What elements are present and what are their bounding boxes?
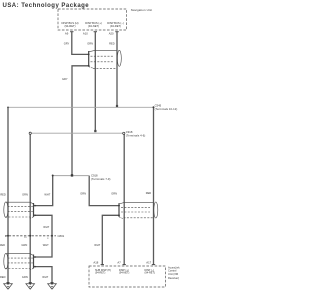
svg-text:RED: RED (0, 243, 5, 247)
node S2 top stub (34, 205, 36, 207)
wire branch right GRN (89, 176, 119, 206)
wire G545 left RED (7, 107, 9, 282)
node A20 terminal (116, 105, 118, 107)
node S3 top stub (34, 256, 36, 258)
svg-text:A9: A9 (65, 32, 69, 36)
svg-text:WHT: WHT (43, 243, 49, 247)
svg-text:WHT: WHT (42, 275, 48, 279)
twisted pair shield S1 (89, 50, 122, 68)
twisted pair shield S4 (119, 202, 158, 219)
svg-text:(94-RET): (94-RET) (110, 24, 121, 28)
wire A20 RED (116, 32, 118, 106)
svg-text:USA: Technology Package: USA: Technology Package (3, 3, 90, 9)
pin tick A9 (70, 31, 73, 33)
wire color labels row 1 (0, 41, 151, 279)
node A10 terminal (94, 130, 96, 132)
svg-text:(Terminals 7-9): (Terminals 7-9) (91, 177, 111, 181)
connector line C801 (5, 235, 56, 237)
svg-text:GRY: GRY (62, 77, 68, 81)
svg-text:Unit (XM: Unit (XM (168, 272, 178, 276)
junction line C918 (4-6) (30, 132, 124, 134)
svg-text:GRN: GRN (22, 275, 28, 279)
acuralink box (89, 266, 165, 287)
svg-text:RED: RED (146, 191, 152, 195)
svg-text:A10: A10 (83, 32, 88, 36)
svg-text:WHT: WHT (44, 192, 50, 196)
wire shield2-3 link (35, 215, 52, 257)
acuralink pin texts (95, 269, 155, 274)
node C545 corner (153, 106, 155, 108)
wire shield3 to ground (35, 267, 52, 282)
junction line C545 (8, 106, 154, 108)
svg-text:Navigation Unit: Navigation Unit (131, 8, 152, 12)
node C801 wire3 (51, 235, 53, 237)
ground G3 (48, 282, 57, 289)
svg-text:Receiver): Receiver) (168, 276, 179, 280)
node junction left corner (52, 175, 54, 177)
wire C918 to A7 (123, 133, 125, 264)
svg-text:(94-RET): (94-RET) (145, 271, 155, 274)
svg-text:(Terminals 4-6): (Terminals 4-6) (126, 133, 146, 137)
node S3 bottom stub (34, 266, 36, 268)
node G545-left corner (7, 107, 9, 109)
twisted pair shield S2 (4, 202, 34, 219)
svg-text:GRN: GRN (22, 192, 28, 196)
wire shield4 to A18 WHT (102, 215, 119, 264)
pin tick A17 (152, 264, 155, 266)
svg-text:Control: Control (168, 269, 177, 273)
node S4 bottom stub (118, 214, 120, 216)
navigation unit box (58, 9, 127, 30)
svg-text:GRN: GRN (111, 191, 117, 195)
node C801 wire2 (29, 235, 31, 237)
svg-text:GRN: GRN (87, 41, 93, 45)
svg-text:AcuraLink: AcuraLink (168, 265, 180, 269)
node S4 top stub (118, 205, 120, 207)
svg-text:RED: RED (0, 192, 6, 196)
svg-text:A17: A17 (146, 261, 151, 265)
node C801 wire1 (7, 235, 9, 237)
wire A10 GRN (94, 32, 96, 131)
svg-text:A18: A18 (93, 261, 98, 265)
svg-text:RED: RED (0, 275, 6, 279)
svg-text:GRN: GRN (80, 191, 86, 195)
pin tick A7 (123, 264, 126, 266)
svg-text:A7: A7 (117, 261, 121, 265)
wire branch left WHT (35, 176, 53, 206)
node C918 end (123, 132, 125, 134)
wire shield drain GRY (72, 66, 89, 175)
node S2 bottom stub (34, 214, 36, 216)
node C918 corner (29, 132, 31, 134)
svg-text:GRY: GRY (64, 41, 70, 45)
nav pin A9 text (62, 21, 124, 28)
ground G2 (26, 282, 35, 289)
wire C545 to A17 (153, 107, 155, 264)
svg-text:WHT: WHT (94, 243, 100, 247)
svg-text:(94-RET): (94-RET) (95, 271, 105, 274)
ground G1 (4, 282, 13, 289)
junction line C918 (7-9) (53, 175, 89, 177)
node S1 top stub (88, 54, 90, 56)
svg-text:GRN: GRN (21, 243, 27, 247)
wire C918 left GRN (29, 133, 31, 282)
node shield drain terminal (71, 174, 73, 176)
svg-text:RED: RED (109, 41, 115, 45)
pin tick A20 (115, 31, 118, 33)
svg-text:C801: C801 (58, 234, 65, 238)
pin tick A18 (101, 264, 104, 266)
acuralink label (168, 265, 180, 280)
pin tick A10 (94, 31, 97, 33)
svg-text:A20: A20 (109, 32, 114, 36)
svg-text:(94-NET): (94-NET) (88, 24, 99, 28)
svg-text:C918: C918 (91, 173, 98, 177)
twisted pair shield S3 (4, 253, 34, 269)
svg-text:(94-RET): (94-RET) (64, 24, 75, 28)
svg-text:(Terminals 10-12): (Terminals 10-12) (155, 107, 178, 111)
node S1 bottom stub (88, 65, 90, 67)
wire A9 GRY (72, 32, 89, 55)
svg-text:WHT: WHT (43, 225, 49, 229)
svg-text:(94-NET): (94-NET) (119, 271, 129, 274)
